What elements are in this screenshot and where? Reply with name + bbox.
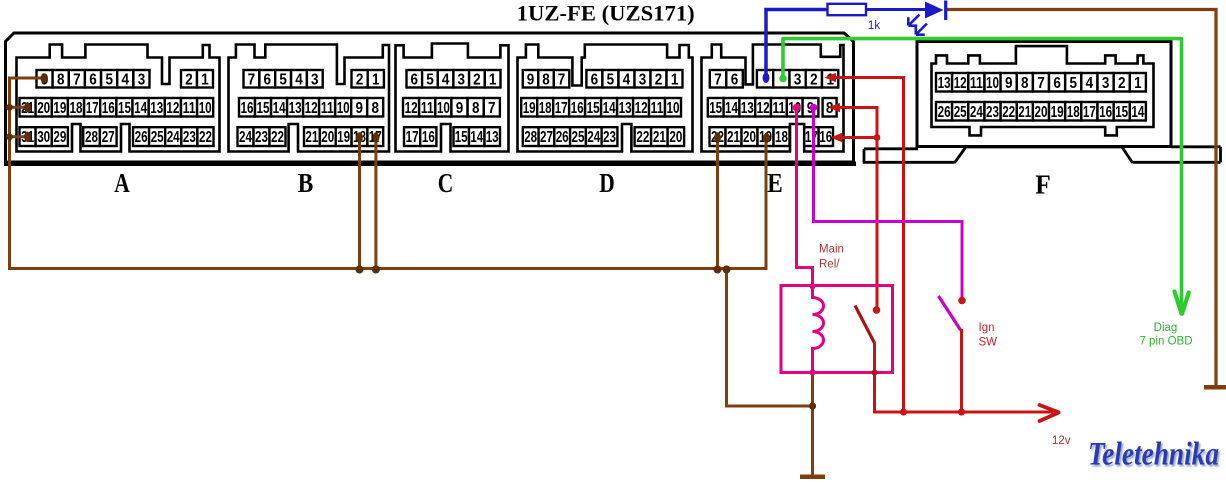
svg-text:4: 4: [295, 71, 303, 88]
svg-text:1UZ-FE (UZS171): 1UZ-FE (UZS171): [517, 0, 695, 25]
svg-text:11: 11: [321, 100, 334, 117]
junction dot bus B17: [372, 266, 380, 274]
relay switch output: [875, 342, 1054, 412]
svg-text:7: 7: [558, 71, 566, 88]
connector C row2 pins 12-7: [403, 98, 419, 117]
svg-text:29: 29: [53, 129, 66, 146]
wire magenta E9 to ign sw: [814, 110, 963, 298]
connector B outline: [229, 45, 390, 152]
diode D1 cathode bar: [944, 1, 947, 21]
svg-text:14: 14: [134, 100, 147, 117]
svg-text:14: 14: [470, 129, 483, 146]
wire red E1 feed: [833, 78, 904, 413]
svg-text:SW: SW: [979, 337, 998, 349]
wire blue E5 up and right: [766, 10, 828, 81]
svg-text:12v: 12v: [1052, 435, 1071, 447]
connector D row3 pins 28-23: [523, 127, 539, 146]
svg-text:8: 8: [1021, 75, 1029, 92]
pin dot B17: [373, 132, 380, 142]
connector F row2 pins 26-14: [936, 102, 952, 121]
connector E row1 pins 5-1: [757, 70, 773, 88]
svg-text:25: 25: [151, 129, 164, 146]
svg-text:20: 20: [669, 129, 682, 146]
svg-text:7: 7: [73, 71, 81, 88]
svg-text:16: 16: [819, 129, 832, 146]
svg-text:18: 18: [70, 100, 83, 117]
svg-text:23: 23: [255, 129, 268, 146]
svg-text:28: 28: [85, 129, 98, 146]
svg-text:5: 5: [105, 71, 113, 88]
connector A row2 pins 21-10: [20, 98, 36, 117]
wire red ign sw output: [960, 329, 963, 412]
svg-text:15: 15: [709, 100, 722, 117]
svg-text:19: 19: [523, 100, 536, 117]
connector D row1 pins 9-7: [523, 70, 539, 88]
connector E row3 pins 22-18: [710, 127, 726, 146]
ECU case outline: [6, 33, 854, 162]
svg-text:28: 28: [524, 129, 537, 146]
svg-text:2: 2: [1118, 75, 1126, 92]
svg-text:13: 13: [150, 100, 163, 117]
wire brown branch A21: [10, 106, 28, 109]
svg-text:10: 10: [199, 100, 212, 117]
connector B row1 pins 2-1: [352, 70, 368, 88]
svg-text:1: 1: [1134, 75, 1142, 92]
svg-text:1: 1: [372, 71, 380, 88]
svg-text:Teletehnika: Teletehnika: [1088, 437, 1219, 473]
pin dot B18: [356, 132, 363, 142]
svg-text:23: 23: [183, 129, 196, 146]
svg-text:7: 7: [1037, 75, 1045, 92]
svg-text:18: 18: [1067, 104, 1080, 121]
svg-text:6: 6: [591, 71, 599, 88]
arrowhead into E16: [831, 133, 843, 142]
svg-text:21: 21: [727, 129, 740, 146]
connector F row1 pins 13-1: [936, 73, 952, 92]
svg-text:18: 18: [775, 129, 788, 146]
pin dot E22: [714, 132, 721, 142]
junction dot A31 tap: [6, 133, 13, 140]
pin dot A21: [24, 102, 31, 112]
svg-text:3: 3: [1102, 75, 1110, 92]
svg-text:10: 10: [667, 100, 680, 117]
svg-text:20: 20: [321, 129, 334, 146]
svg-text:22: 22: [199, 129, 212, 146]
wire brown B18 drop: [358, 139, 361, 269]
svg-text:Rel/: Rel/: [819, 259, 840, 271]
arrowhead into E1: [825, 73, 837, 82]
junction dot red E16 tap: [874, 134, 881, 141]
junction dot A21 tap: [6, 104, 13, 111]
connector A outline: [17, 45, 220, 152]
svg-text:12: 12: [405, 100, 418, 117]
svg-text:19: 19: [1051, 104, 1064, 121]
svg-text:13: 13: [619, 100, 632, 117]
svg-text:B: B: [298, 167, 314, 198]
svg-text:7: 7: [488, 100, 496, 117]
LED arrow 2: [916, 24, 927, 35]
svg-text:1k: 1k: [868, 20, 880, 32]
wire brown B17 drop: [374, 139, 377, 269]
connector A row3 pins 31-29: [20, 127, 36, 146]
svg-text:F: F: [1035, 169, 1051, 200]
wire brown bus to ground leg: [727, 269, 813, 407]
svg-text:3: 3: [311, 71, 319, 88]
svg-text:9: 9: [456, 100, 464, 117]
svg-text:8: 8: [372, 100, 380, 117]
svg-text:6: 6: [264, 71, 272, 88]
svg-text:15: 15: [455, 129, 468, 146]
ign switch top contact: [958, 297, 966, 305]
svg-text:11: 11: [772, 100, 785, 117]
svg-text:10: 10: [437, 100, 450, 117]
svg-text:5: 5: [426, 71, 434, 88]
svg-text:24: 24: [167, 129, 180, 146]
svg-text:22: 22: [1002, 104, 1015, 121]
wire red E8 feed: [837, 108, 877, 307]
svg-text:8: 8: [542, 71, 550, 88]
connector B row3 pins 21-17: [304, 127, 320, 146]
ground symbol (right): [1204, 385, 1226, 390]
bracket right cap: [1219, 147, 1222, 163]
svg-text:4: 4: [1086, 75, 1094, 92]
svg-text:14: 14: [725, 100, 738, 117]
svg-text:1: 1: [489, 71, 497, 88]
connector B row1 pins 7-3: [244, 70, 260, 88]
diode D1 (LED): [925, 2, 944, 19]
connector E row2 pins 15-9: [708, 98, 724, 117]
svg-text:6: 6: [731, 71, 739, 88]
wire brown A9 to left bus: [10, 78, 767, 269]
svg-text:5: 5: [607, 71, 615, 88]
connector B row2 pins 16-8: [239, 98, 255, 117]
wire green E4 to OBD: [783, 39, 1182, 310]
wire blue resistor to diode: [866, 8, 925, 11]
pin dot A31: [24, 132, 31, 142]
svg-text:E: E: [767, 167, 783, 198]
svg-text:12: 12: [305, 100, 318, 117]
svg-text:12: 12: [166, 100, 179, 117]
svg-text:11: 11: [421, 100, 434, 117]
svg-text:2: 2: [473, 71, 481, 88]
svg-text:Diag: Diag: [1154, 322, 1178, 334]
ground symbol (main relay): [800, 475, 825, 480]
arrowhead into E8: [829, 103, 841, 112]
svg-text:9: 9: [1005, 75, 1013, 92]
svg-text:2: 2: [810, 71, 818, 88]
svg-text:9: 9: [355, 100, 363, 117]
connector A row1 pins 9-3: [37, 70, 53, 88]
ign switch blade: [939, 296, 961, 330]
junction dot 12v ign: [958, 408, 965, 415]
junction dot 12v E1: [900, 408, 907, 415]
resistor R 1k: [828, 4, 867, 15]
connector D row3 pins 22-20: [635, 127, 652, 146]
svg-text:20: 20: [743, 129, 756, 146]
svg-text:11: 11: [970, 75, 983, 92]
svg-text:17: 17: [86, 100, 99, 117]
pin dot E5 blue: [763, 73, 770, 83]
wire brown relay coil to ground: [811, 373, 814, 476]
connector A row3 pins 28-27: [83, 127, 100, 146]
wire pink E10 to relay coil: [797, 110, 824, 373]
svg-text:7: 7: [248, 71, 256, 88]
svg-text:17: 17: [1083, 104, 1096, 121]
svg-text:13: 13: [486, 129, 499, 146]
connector E outline: [702, 45, 844, 152]
svg-text:1: 1: [671, 71, 679, 88]
svg-text:23: 23: [986, 104, 999, 121]
svg-text:21: 21: [305, 129, 318, 146]
svg-text:24: 24: [970, 104, 983, 121]
relay switch blade: [855, 306, 875, 344]
svg-text:27: 27: [540, 129, 553, 146]
svg-text:19: 19: [337, 129, 350, 146]
svg-text:11: 11: [183, 100, 196, 117]
svg-text:16: 16: [422, 129, 435, 146]
pin dot E10 pink: [793, 104, 801, 112]
bracket bottom-right: [1133, 161, 1221, 164]
svg-text:26: 26: [556, 129, 569, 146]
svg-text:12: 12: [757, 100, 770, 117]
svg-text:16: 16: [571, 100, 584, 117]
junction dot bus ground leg: [723, 266, 731, 274]
svg-text:Main: Main: [819, 244, 844, 256]
junction dot bus E22: [714, 266, 722, 274]
junction dot coil ground: [809, 402, 816, 409]
svg-text:D: D: [599, 167, 615, 198]
connector A row3 pins 26-22: [133, 127, 149, 146]
svg-text:15: 15: [587, 100, 600, 117]
svg-text:2: 2: [655, 71, 663, 88]
svg-text:20: 20: [1035, 104, 1048, 121]
svg-text:21: 21: [653, 129, 666, 146]
svg-text:17: 17: [555, 100, 568, 117]
ECU case bottom edge: [4, 162, 856, 167]
connector B row3 pins 24-22: [238, 127, 254, 146]
wire brown diode to right ground: [946, 10, 1216, 386]
svg-text:25: 25: [572, 129, 585, 146]
green arrowhead: [1175, 292, 1189, 314]
svg-text:22: 22: [271, 129, 284, 146]
svg-text:27: 27: [102, 129, 115, 146]
svg-text:12: 12: [635, 100, 648, 117]
wire red E16 feed: [839, 136, 877, 139]
svg-text:4: 4: [122, 71, 130, 88]
svg-text:15: 15: [118, 100, 131, 117]
connector F inner outline: [932, 46, 1154, 135]
svg-text:17: 17: [805, 129, 818, 146]
svg-text:13: 13: [741, 100, 754, 117]
svg-text:18: 18: [539, 100, 552, 117]
svg-text:13: 13: [938, 75, 951, 92]
svg-text:8: 8: [57, 71, 65, 88]
pin dot E9 magenta: [810, 104, 818, 112]
relay switch top contact: [873, 306, 881, 314]
12v arrowhead: [1040, 405, 1059, 421]
junction dot bus B18: [356, 266, 364, 274]
main relay box: [781, 286, 893, 373]
svg-text:13: 13: [289, 100, 302, 117]
svg-text:22: 22: [636, 129, 649, 146]
junction dot coil bottom: [810, 370, 816, 376]
connector C outline: [396, 44, 509, 152]
LED arrow 1: [908, 15, 919, 26]
pin dot E4 green: [779, 75, 787, 83]
connector D row1 pins 6-1: [586, 70, 602, 88]
svg-text:15: 15: [257, 100, 270, 117]
svg-text:23: 23: [603, 129, 616, 146]
svg-text:9: 9: [527, 71, 535, 88]
svg-text:3: 3: [794, 71, 802, 88]
bracket mid top: [966, 146, 1123, 149]
svg-text:6: 6: [89, 71, 97, 88]
svg-text:4: 4: [442, 71, 450, 88]
bracket bottom-left: [863, 161, 955, 164]
svg-text:5: 5: [279, 71, 287, 88]
svg-text:3: 3: [138, 71, 146, 88]
pin dot A9: [41, 73, 48, 83]
svg-text:3: 3: [458, 71, 466, 88]
svg-text:6: 6: [411, 71, 419, 88]
bracket left cap: [863, 149, 866, 163]
wire brown branch A31: [10, 135, 28, 138]
svg-text:7: 7: [714, 71, 722, 88]
svg-text:25: 25: [954, 104, 967, 121]
connector A row1 pins 2-1: [181, 70, 197, 88]
svg-text:26: 26: [938, 104, 951, 121]
svg-text:11: 11: [651, 100, 664, 117]
svg-text:3: 3: [639, 71, 647, 88]
svg-text:14: 14: [603, 100, 616, 117]
svg-text:10: 10: [337, 100, 350, 117]
connector C row3 pins 17-16: [404, 127, 420, 146]
svg-text:24: 24: [239, 129, 252, 146]
svg-text:5: 5: [1070, 75, 1078, 92]
connector F case box: [917, 42, 1171, 147]
svg-text:20: 20: [37, 100, 50, 117]
svg-text:8: 8: [472, 100, 480, 117]
svg-text:1: 1: [201, 71, 209, 88]
svg-text:14: 14: [273, 100, 286, 117]
svg-text:16: 16: [1099, 104, 1112, 121]
svg-text:26: 26: [135, 129, 148, 146]
junction dot relay box bottom: [872, 370, 878, 376]
svg-text:12: 12: [954, 75, 967, 92]
svg-text:16: 16: [102, 100, 115, 117]
svg-text:19: 19: [53, 100, 66, 117]
junction dot coil top: [810, 283, 816, 289]
svg-text:14: 14: [1131, 104, 1144, 121]
connector D outline: [518, 45, 693, 152]
svg-text:4: 4: [623, 71, 631, 88]
bracket left diagonal: [955, 148, 966, 163]
svg-text:6: 6: [1053, 75, 1061, 92]
svg-text:C: C: [438, 167, 454, 198]
bracket top-right segment: [1171, 145, 1221, 148]
connector E row1 pins 7-6: [710, 70, 727, 88]
svg-text:16: 16: [241, 100, 254, 117]
svg-text:21: 21: [1018, 104, 1031, 121]
svg-text:17: 17: [406, 129, 419, 146]
svg-text:2: 2: [185, 71, 193, 88]
bracket top-left segment: [864, 147, 918, 150]
pin dot E19: [763, 133, 770, 143]
connector E row3 pins 17-16: [804, 127, 818, 146]
svg-text:Ign: Ign: [979, 322, 995, 334]
svg-text:15: 15: [1115, 104, 1128, 121]
connector E row2 pin 8: [823, 98, 837, 117]
svg-text:A: A: [114, 167, 130, 198]
svg-text:2: 2: [356, 71, 364, 88]
connector C row3 pins 15-13: [454, 127, 470, 146]
connector C row1 pins 6-1: [407, 70, 423, 88]
wire brown E22 drop: [716, 139, 719, 269]
bracket right diagonal: [1122, 147, 1133, 163]
svg-text:7 pin OBD: 7 pin OBD: [1139, 336, 1192, 348]
svg-text:10: 10: [986, 75, 999, 92]
connector D row2 pins 19-10: [521, 98, 537, 117]
svg-text:30: 30: [37, 129, 50, 146]
svg-text:24: 24: [587, 129, 600, 146]
